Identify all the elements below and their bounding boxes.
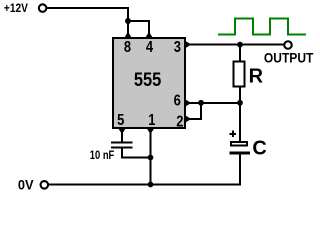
svg-text:3: 3 bbox=[174, 39, 182, 56]
svg-text:2: 2 bbox=[176, 114, 183, 131]
svg-text:+12V: +12V bbox=[4, 3, 28, 15]
svg-text:4: 4 bbox=[146, 39, 154, 56]
svg-text:1: 1 bbox=[148, 112, 156, 129]
svg-text:8: 8 bbox=[124, 39, 132, 56]
svg-text:R: R bbox=[249, 66, 264, 88]
svg-text:5: 5 bbox=[117, 112, 125, 129]
svg-text:OUTPUT: OUTPUT bbox=[264, 50, 314, 65]
svg-text:6: 6 bbox=[174, 92, 182, 109]
svg-text:C: C bbox=[252, 138, 266, 160]
svg-text:555: 555 bbox=[134, 69, 162, 91]
svg-text:0V: 0V bbox=[18, 176, 34, 192]
svg-text:10 nF: 10 nF bbox=[90, 150, 115, 162]
